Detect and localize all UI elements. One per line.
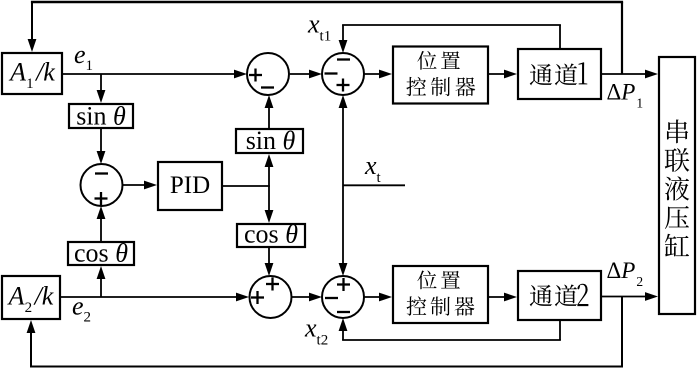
wire PID output to junction	[223, 185, 270, 187]
wire channel 1 to cylinder	[602, 70, 658, 79]
svg-text:e1: e1	[74, 40, 93, 74]
block channel 1	[518, 49, 601, 99]
block sin-theta left	[69, 102, 133, 131]
summing junction S3 (e2 + cos)	[250, 276, 292, 318]
wire position controller 2 to channel 2	[489, 293, 517, 302]
svg-text:PID: PID	[170, 172, 210, 199]
svg-text:sin θ: sin θ	[246, 126, 296, 155]
svg-text:xt: xt	[364, 151, 382, 186]
block series hydraulic cylinder	[659, 57, 695, 314]
wire cos block up to summer S0	[97, 206, 106, 241]
wire junction up to mid sin block	[265, 154, 274, 186]
block position controller 1	[393, 47, 488, 104]
summing junction S2 (x_t1 compare)	[322, 53, 364, 95]
block PID	[158, 162, 222, 210]
svg-text:cos θ: cos θ	[244, 220, 298, 249]
svg-text:ΔP2: ΔP2	[607, 258, 644, 289]
wire channel 2 to cylinder	[602, 292, 658, 301]
block cos-theta mid	[237, 220, 305, 249]
block channel 2	[518, 271, 601, 320]
wire feedback dP1 top rail	[28, 2, 624, 74]
wire summer S3 to summer S4	[290, 293, 322, 302]
wire summer S1 to summer S2	[290, 70, 322, 79]
svg-text:xt1: xt1	[307, 10, 331, 45]
wire e1 rail A1/k to summer S1	[63, 70, 247, 79]
svg-text:xt2: xt2	[304, 314, 328, 349]
summing junction S4 (x_t2 compare)	[322, 276, 364, 318]
wire summer S4 to position controller 2	[364, 293, 392, 302]
block A2/k	[2, 276, 60, 319]
wire sin block to summer S0	[97, 129, 106, 164]
wire branch e1 down to sin block	[97, 74, 106, 103]
wire x_t trunk	[339, 95, 348, 276]
wire summer S0 to PID	[122, 181, 157, 190]
svg-text:cos θ: cos θ	[74, 239, 128, 268]
wire feedback dP2 bottom rail	[27, 297, 623, 367]
summing junction S0 (PID error)	[81, 164, 123, 206]
wire junction down to mid cos block	[265, 186, 274, 223]
svg-text:ΔP1: ΔP1	[607, 80, 644, 111]
wire x_t stub	[343, 184, 405, 186]
wire position controller 1 to channel 1	[489, 70, 517, 79]
summing junction S1 (e1 + sin)	[247, 53, 289, 95]
svg-text:sin θ: sin θ	[76, 102, 126, 131]
block sin-theta mid	[236, 126, 303, 155]
wire x_t1 tap from channel1	[339, 25, 561, 53]
wire summer S2 to position controller 1	[364, 70, 392, 79]
block position controller 2	[393, 266, 488, 323]
wire x_t2 tap from channel2	[339, 318, 561, 340]
wire branch e2 up to cos block	[97, 266, 106, 297]
wire mid cos block down to summer S3	[265, 248, 274, 276]
wire e2 rail A2/k to summer S3	[61, 293, 249, 302]
block cos-theta left	[68, 239, 134, 268]
block A1/k	[2, 53, 62, 94]
wire mid sin block up to summer S1	[265, 95, 274, 128]
